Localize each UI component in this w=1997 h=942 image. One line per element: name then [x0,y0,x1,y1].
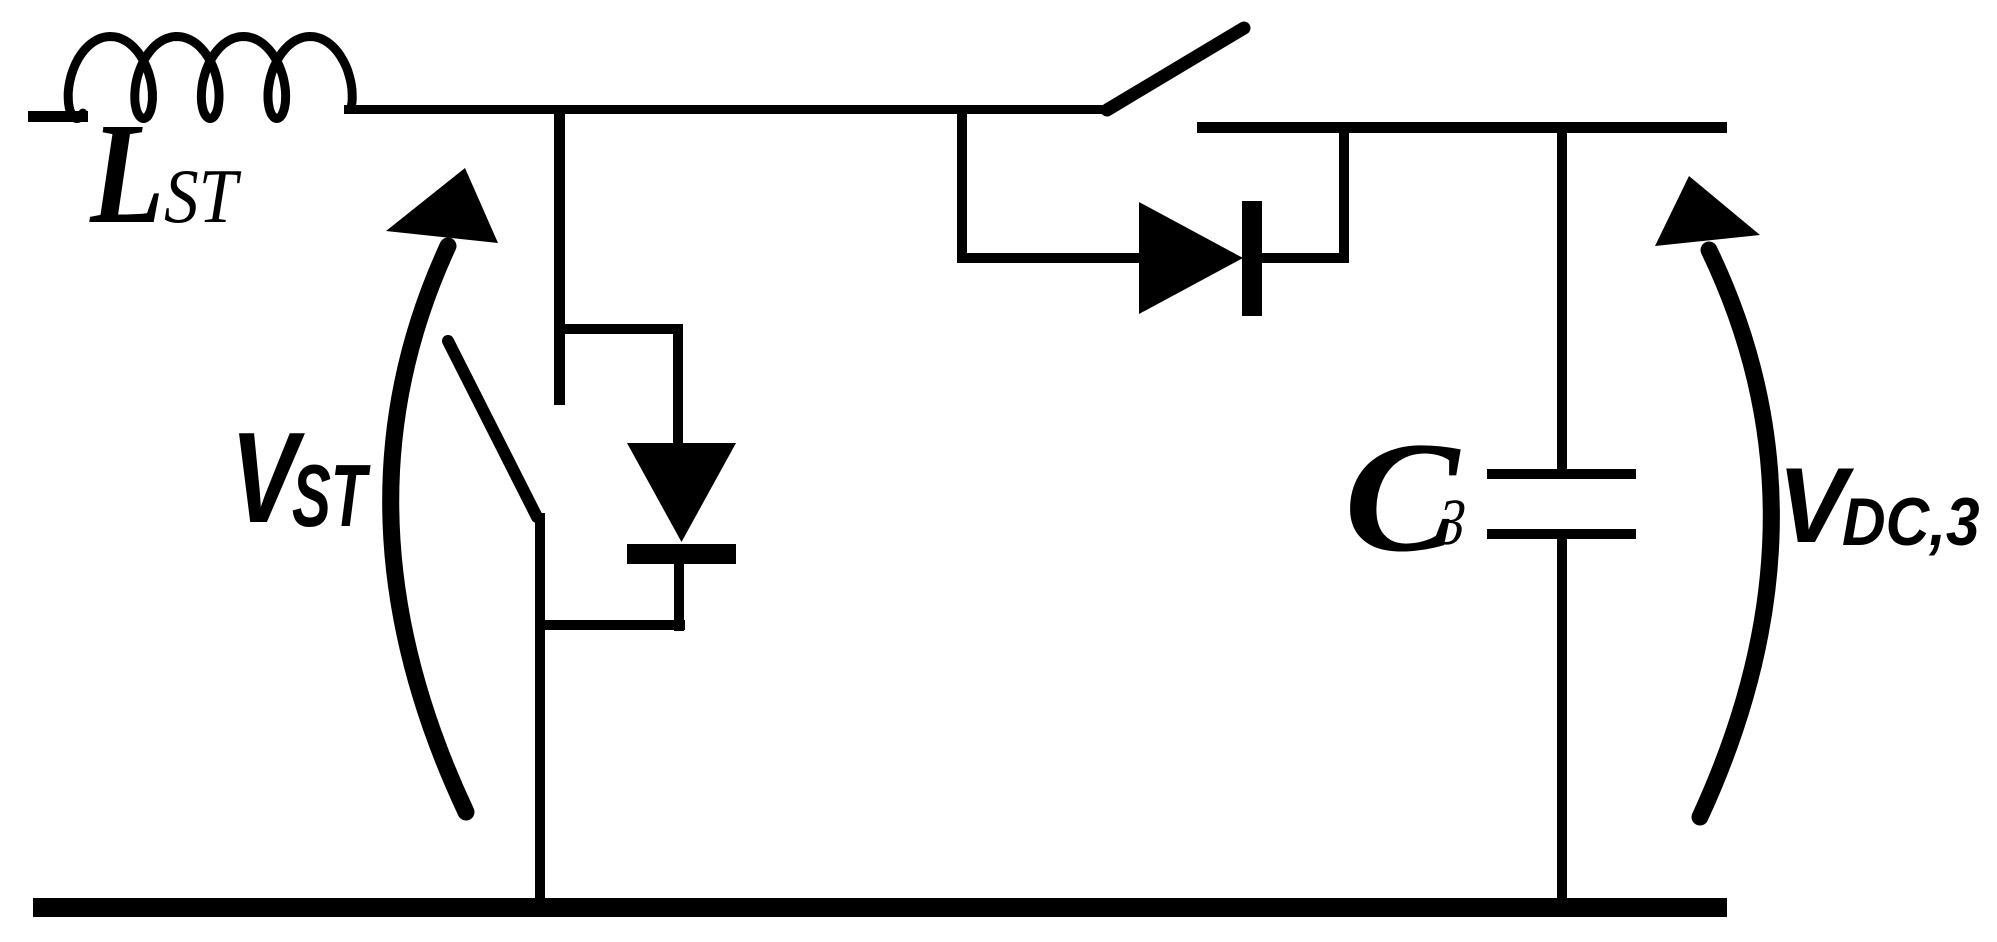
label C3 [1344,409,1461,584]
switch S2 blade (top, open) [1107,28,1244,110]
wire: diode D1 cathode drop [674,564,684,631]
diode D1 (anti-parallel, pointing down) [627,443,736,542]
voltage arrow VST shaft [391,246,466,812]
wire: bypass left drop [957,105,967,263]
wire: right rail [1197,122,1727,133]
node junction vertical (switch S1 top terminal) [554,105,565,405]
label LST [89,93,164,253]
wire: diode D1 bottom return [536,620,685,630]
wire: left input stub [28,111,88,122]
svg-text:ST: ST [292,446,371,545]
voltage arrow VST head [386,168,498,243]
svg-text:L: L [89,93,164,253]
voltage arrow VDC3 head [1655,176,1760,246]
wire: bypass right riser [1339,127,1349,263]
label VDC3 [1778,447,1855,566]
capacitor C3 top lead [1557,127,1567,472]
svg-text:ST: ST [164,154,242,239]
svg-text:DC,3: DC,3 [1842,484,1980,560]
wire: switch S1 to ground [535,513,545,907]
voltage arrow VDC3 shaft [1700,250,1771,817]
diode D2 (pointing right) [1139,202,1243,314]
wire: bypass to diode D2 [957,253,1144,263]
wire: diode D2 to right riser [1262,253,1349,263]
inductor LST coil [68,37,352,119]
diode D1 cathode bar [627,544,736,564]
ground rail [33,898,1727,917]
label VST [231,405,306,550]
capacitor C3 top plate [1487,469,1636,479]
switch S1 blade [448,341,537,517]
wire: branch to diode D1 [554,324,682,334]
capacitor C3 bottom lead [1557,539,1567,907]
diode D2 cathode bar [1242,201,1262,316]
wire: diode D1 anode drop [673,324,683,448]
wire: top rail [344,105,1109,114]
capacitor C3 bottom plate [1487,529,1636,539]
